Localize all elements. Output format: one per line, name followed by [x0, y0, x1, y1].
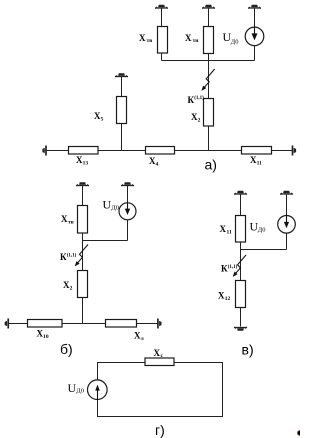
svg-text:Х: Х [185, 33, 192, 43]
svg-text:4: 4 [156, 162, 159, 168]
svg-text:(1,1): (1,1) [228, 265, 238, 270]
svg-text:в): в) [242, 342, 254, 358]
svg-text:Х: Х [61, 214, 68, 224]
svg-text:Х: Х [154, 348, 161, 358]
svg-text:12: 12 [225, 296, 231, 302]
svg-text:11: 11 [227, 230, 232, 236]
svg-text:13: 13 [83, 161, 89, 167]
svg-text:(1,1): (1,1) [194, 96, 204, 101]
svg-text:Д0: Д0 [76, 388, 84, 395]
svg-text:Х: Х [220, 224, 227, 234]
svg-text:тн: тн [193, 38, 200, 44]
svg-text:Д0: Д0 [231, 39, 239, 46]
svg-text:Х: Х [139, 33, 146, 43]
svg-text:а): а) [205, 157, 217, 173]
svg-text:г): г) [155, 422, 165, 438]
svg-text:л: л [141, 336, 144, 342]
svg-text:11: 11 [257, 161, 262, 167]
svg-text:10: 10 [43, 334, 49, 340]
svg-text:U: U [68, 381, 77, 395]
svg-text:Д0: Д0 [258, 227, 266, 234]
svg-text:2: 2 [198, 118, 201, 124]
svg-text:б): б) [60, 341, 73, 357]
svg-text:2: 2 [70, 286, 73, 292]
svg-text:тв: тв [147, 38, 153, 44]
svg-text:U: U [103, 198, 112, 212]
svg-text:Д0: Д0 [111, 205, 119, 212]
svg-text:5: 5 [101, 117, 104, 123]
svg-text:тв: тв [68, 220, 74, 226]
svg-text:(1,1): (1,1) [67, 254, 77, 259]
